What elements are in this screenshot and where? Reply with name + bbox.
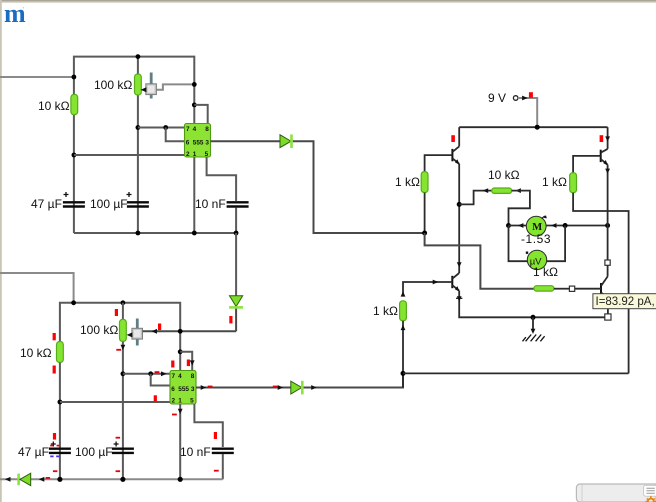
wire: pin 5 lower to 10nF xyxy=(194,404,222,447)
label 100 uF (upper) xyxy=(90,197,128,211)
wire: voltmeter right side xyxy=(547,226,565,262)
wire: voltmeter loop xyxy=(509,226,528,262)
transistor Q2 xyxy=(601,127,610,166)
current arrow Q3 emitter xyxy=(456,296,462,301)
wire: node B to 555#1 pin 2 xyxy=(74,154,185,156)
svg-text:6: 6 xyxy=(186,139,190,146)
current arrow down (pot bottom) xyxy=(121,345,126,350)
label 1 k (right) xyxy=(542,175,567,189)
wire: 10nF bottom to ground rail xyxy=(235,208,237,234)
label 9 V xyxy=(488,91,506,105)
wire: left input to node A xyxy=(0,76,74,78)
svg-text:100 µF: 100 µF xyxy=(90,197,128,211)
node rail-pot junction lower xyxy=(121,300,126,305)
svg-text:’: ’ xyxy=(23,6,25,15)
wire: Q3 base xyxy=(403,282,452,294)
current arrow Q2 emitter xyxy=(605,169,610,174)
svg-text:555: 555 xyxy=(178,386,189,393)
svg-text:2: 2 xyxy=(172,398,176,405)
resistor 1 k (right) xyxy=(570,173,577,193)
red minus (47uF bottom) xyxy=(53,470,58,472)
transistor Q1 xyxy=(452,127,459,165)
capacitor 10 nF (upper) xyxy=(227,202,249,206)
node gnd-100uF junction xyxy=(136,231,141,236)
wire: D2 to Q3 bias column xyxy=(304,373,403,387)
voltage tick (47uF top) xyxy=(53,433,56,440)
probe square (Q2-Q4 column) xyxy=(605,260,610,265)
wire: column to Q4 xyxy=(607,265,609,276)
node Q2 collector junction xyxy=(605,223,610,228)
battery 9 V terminal xyxy=(513,96,537,128)
voltage tick (pin 8 lower) xyxy=(187,360,190,367)
current arrow M out xyxy=(551,223,557,228)
wire: wiper to VCC net xyxy=(156,84,194,89)
wire: branch to 10k meter resistor xyxy=(459,191,492,205)
node Q1 emitter / meter branch xyxy=(457,202,462,207)
wire: ammeter to Q2 collector column xyxy=(546,225,608,227)
wire: 10k to ammeter xyxy=(509,191,530,226)
voltage tick (10nF top) xyxy=(214,432,217,439)
svg-text:10 nF: 10 nF xyxy=(195,197,226,211)
wire: Q1 base bias xyxy=(425,155,453,172)
svg-text:1 kΩ: 1 kΩ xyxy=(395,175,420,189)
node bias junction xyxy=(422,231,427,236)
current arrow before D2 xyxy=(278,385,284,390)
label 10 k xyxy=(38,99,70,113)
voltage tick (Q1 collector) xyxy=(451,135,455,142)
svg-text:1 kΩ: 1 kΩ xyxy=(373,304,398,318)
current arrow (10k left) xyxy=(483,188,489,193)
svg-text:47 µF: 47 µF xyxy=(18,445,49,459)
red minus (pot bottom) xyxy=(116,349,121,351)
red minus (pin7 wire) xyxy=(155,371,160,373)
svg-text:7: 7 xyxy=(172,373,176,380)
wire: pin 1 lower to ground rail xyxy=(179,404,181,479)
wire: ground rail lower block xyxy=(0,478,223,480)
diode D2 xyxy=(291,381,303,395)
resistor 1 k (upper-left) xyxy=(421,172,428,193)
label 10 nF (upper) xyxy=(195,197,226,211)
red minus (pin3 b) xyxy=(273,386,278,388)
wire: D1 to transistor bias node xyxy=(293,141,425,233)
svg-text:100 kΩ: 100 kΩ xyxy=(80,323,118,337)
voltage tick (pot top lower) xyxy=(115,309,118,316)
node wiper junction on VCC drop xyxy=(192,82,197,87)
wire: Q4 base from probe xyxy=(575,288,601,290)
red minus (pin3 a) xyxy=(208,386,213,388)
node gnd-pin1 junction xyxy=(192,231,197,236)
node pin7 branch junction xyxy=(163,125,168,130)
svg-text:6: 6 xyxy=(171,386,175,393)
wire: 1k to bias node xyxy=(424,193,426,233)
resistor 10 k (lower) xyxy=(57,342,64,363)
wire: Q3 emitter down xyxy=(459,291,605,318)
wire: 555#2 pin 3 output xyxy=(196,387,291,389)
svg-text:5: 5 xyxy=(190,398,194,405)
svg-text:8: 8 xyxy=(191,373,195,380)
node battery junction xyxy=(535,125,540,130)
resistor 10 k (horizontal) xyxy=(492,188,512,193)
diode D3 xyxy=(229,296,243,308)
label 1 k (upper-left) xyxy=(395,175,420,189)
node uV right junction xyxy=(563,223,568,228)
voltmeter uV xyxy=(526,250,547,269)
svg-text:555: 555 xyxy=(193,139,204,146)
current arrow Q3 base xyxy=(433,280,439,285)
red minus (100uF bottom) xyxy=(116,470,121,472)
voltage tick (battery) xyxy=(529,92,533,98)
wire: VCC rail lower block xyxy=(60,303,180,371)
wire: into ammeter xyxy=(509,225,527,227)
current arrow into pin 8 xyxy=(190,360,195,365)
svg-text:10 kΩ: 10 kΩ xyxy=(38,99,70,113)
red minus (pin1) xyxy=(172,414,177,416)
svg-text:10 kΩ: 10 kΩ xyxy=(488,168,520,182)
voltage tick (Q2 collector top) xyxy=(600,135,604,142)
wire: pin 5 to 10nF cap xyxy=(207,157,237,201)
diode D3 column (from upper gnd) xyxy=(235,233,237,296)
current arrow pin3 out xyxy=(201,385,207,390)
top window border xyxy=(0,0,656,3)
red minus (rail) xyxy=(46,477,51,479)
wire: left input lower xyxy=(0,273,74,303)
ammeter M xyxy=(526,215,547,236)
svg-text:100 µF: 100 µF xyxy=(75,445,113,459)
wire: D3 to wiper net lower xyxy=(235,309,237,332)
node B junction (pin2 net) xyxy=(72,153,77,158)
potentiometer 100 k wiper knob (lower) xyxy=(127,319,143,346)
wire: 1k down to junction xyxy=(402,321,404,388)
diode D1 xyxy=(280,134,292,148)
svg-text:2: 2 xyxy=(186,151,190,158)
label 100 k (lower) xyxy=(80,323,118,337)
node ammeter left junction xyxy=(506,223,511,228)
node pin8 branch junction xyxy=(192,103,197,108)
current arrow up (1k lower top) xyxy=(401,291,406,296)
wire: pot column (100k) xyxy=(137,57,139,233)
wire: ground rail (upper block) xyxy=(74,232,236,234)
svg-text:100 kΩ: 100 kΩ xyxy=(94,78,132,92)
label 1 k (under uV) xyxy=(533,265,558,279)
IC 555 #2 xyxy=(170,371,196,405)
node rail-pin1 junction xyxy=(178,477,183,482)
current arrow (1k lower bottom) xyxy=(401,325,406,330)
current arrow Q1 column xyxy=(457,262,462,267)
node ground junction xyxy=(531,315,536,320)
current arrow after D2 xyxy=(311,385,317,390)
voltage tick (10k bottom) xyxy=(53,366,56,374)
wire: Q2 base bias xyxy=(573,156,601,173)
current arrow pin1 down xyxy=(178,409,183,414)
capacitor 100 uF (lower) xyxy=(112,437,134,453)
node gnd-10nF junction xyxy=(234,231,239,236)
wire: 10k column down to cap xyxy=(59,363,61,480)
node rail-left junction xyxy=(71,300,76,305)
op-amp-like IC 555 #1 xyxy=(185,124,211,159)
resistor 10 k (upper) xyxy=(71,94,78,114)
svg-text:10 kΩ: 10 kΩ xyxy=(20,346,52,360)
label 10 k (lower) xyxy=(20,346,52,360)
label 100 uF (lower) xyxy=(75,445,113,459)
left window border xyxy=(0,0,2,502)
label 1 k (lower-left) xyxy=(373,304,398,318)
logo m xyxy=(4,0,26,28)
wire: branch to pin 8 lower xyxy=(180,352,192,371)
svg-text:3: 3 xyxy=(205,139,209,146)
resistor 1 k (horizontal lower) xyxy=(534,286,554,291)
wire: branch to pin 6 xyxy=(166,128,185,142)
capacitor 10 nF (lower) xyxy=(212,449,234,453)
probe square (Q4 base) xyxy=(569,286,574,291)
label 10 k (horizontal) xyxy=(488,168,520,182)
svg-text:4: 4 xyxy=(193,126,197,133)
node pot bottom junction lower xyxy=(121,371,126,376)
wire: 10nF bottom to ground rail lower xyxy=(222,454,224,479)
current arrow rail 2 xyxy=(39,477,45,482)
current arrow into M xyxy=(518,223,524,228)
voltage tick (pin 4 lower) xyxy=(171,361,174,368)
capacitor 47 uF (upper) xyxy=(63,192,85,207)
wire: VCC rail top-left xyxy=(74,57,194,233)
label 10 nF (lower) xyxy=(180,445,211,459)
transistor Q4 xyxy=(601,277,608,300)
wire: Q4 emitter down (under tooltip) xyxy=(607,298,609,314)
label 47 uF (lower) xyxy=(18,445,49,459)
transistor Q3 xyxy=(452,273,459,292)
svg-text:7: 7 xyxy=(186,126,190,133)
node pin2 net lower xyxy=(58,400,63,405)
node pin7 branch lower xyxy=(148,371,153,376)
svg-text:47 µF: 47 µF xyxy=(31,197,62,211)
potentiometer 100 k body xyxy=(135,74,142,95)
wire: pin 2 net lower xyxy=(60,401,170,403)
svg-text:1 kΩ: 1 kΩ xyxy=(533,265,558,279)
wire: right 1k to lower bias net xyxy=(573,193,629,374)
capacitor 100 uF (upper) xyxy=(127,192,149,207)
voltage tick (10k top) xyxy=(53,333,56,340)
current arrow to pin 7 xyxy=(161,371,167,376)
svg-text:1 kΩ: 1 kΩ xyxy=(542,175,567,189)
bottom-right floating panel xyxy=(576,484,656,502)
tooltip I=83.92 pA xyxy=(593,294,656,309)
label 47 uF (upper) xyxy=(31,197,62,211)
wire: pot bottom to pin 7 xyxy=(138,127,185,129)
node pot bottom junction xyxy=(136,125,141,130)
wire: Q1 emitter column xyxy=(458,164,460,273)
voltage tick (D3 cathode) xyxy=(229,316,232,323)
resistor 1 k (lower-left) xyxy=(400,301,407,321)
probe square (Q4 emitter) xyxy=(605,314,611,320)
diode D4 (to off-screen) xyxy=(19,473,31,485)
label 100 k (upper) xyxy=(94,78,132,92)
voltage tick (wiper) xyxy=(158,324,161,331)
wire: 555#1 pin 3 output xyxy=(211,140,281,142)
svg-text:1: 1 xyxy=(178,398,182,405)
node rail-pot junction xyxy=(136,54,141,59)
node D2 net junction xyxy=(401,371,406,376)
node rail-100uF junction xyxy=(120,477,125,482)
node rail-47uF junction xyxy=(57,477,62,482)
current arrow (10k right) xyxy=(515,188,521,193)
wire: wiper lower to diode column xyxy=(143,330,236,332)
svg-text:9 V: 9 V xyxy=(488,91,506,105)
wire: VCC rail right xyxy=(459,126,607,128)
voltage tick (pin2) xyxy=(154,395,157,401)
wire: branch to pin 6 lower xyxy=(151,374,170,386)
wire: resistor to probe xyxy=(554,288,570,290)
node wiper junction lower xyxy=(178,329,183,334)
svg-text:8: 8 xyxy=(205,126,209,133)
node wiper-junction on VCC drop lower xyxy=(178,349,183,354)
ground symbol xyxy=(523,317,545,341)
wire: Q2 emitter column xyxy=(607,165,609,260)
potentiometer 100 k body (lower) xyxy=(120,319,127,341)
svg-text:I=83.92 pA,: I=83.92 pA, xyxy=(596,296,655,308)
wire: pot bottom to pin 7 lower xyxy=(123,373,170,375)
potentiometer 100 k wiper knob xyxy=(141,73,157,99)
wire: branch to pin 8 xyxy=(194,105,207,124)
red minus (10nF bottom) xyxy=(214,470,219,472)
label ammeter reading -1.53 xyxy=(521,232,551,246)
node A junction xyxy=(72,75,77,80)
svg-text:4: 4 xyxy=(178,373,182,380)
svg-text:10 nF: 10 nF xyxy=(180,445,211,459)
current arrow on wiper wire xyxy=(151,329,157,334)
wire: bias node to Q4 base path xyxy=(425,233,534,289)
capacitor 47 uF (lower) xyxy=(49,442,71,457)
svg-text:3: 3 xyxy=(191,386,195,393)
wire: pin 1 to ground rail xyxy=(193,157,195,233)
wire: pot column lower xyxy=(122,303,124,480)
svg-text:-1.53: -1.53 xyxy=(521,232,551,246)
current arrow rail left xyxy=(5,477,11,482)
wire: junction to right column xyxy=(403,372,629,374)
